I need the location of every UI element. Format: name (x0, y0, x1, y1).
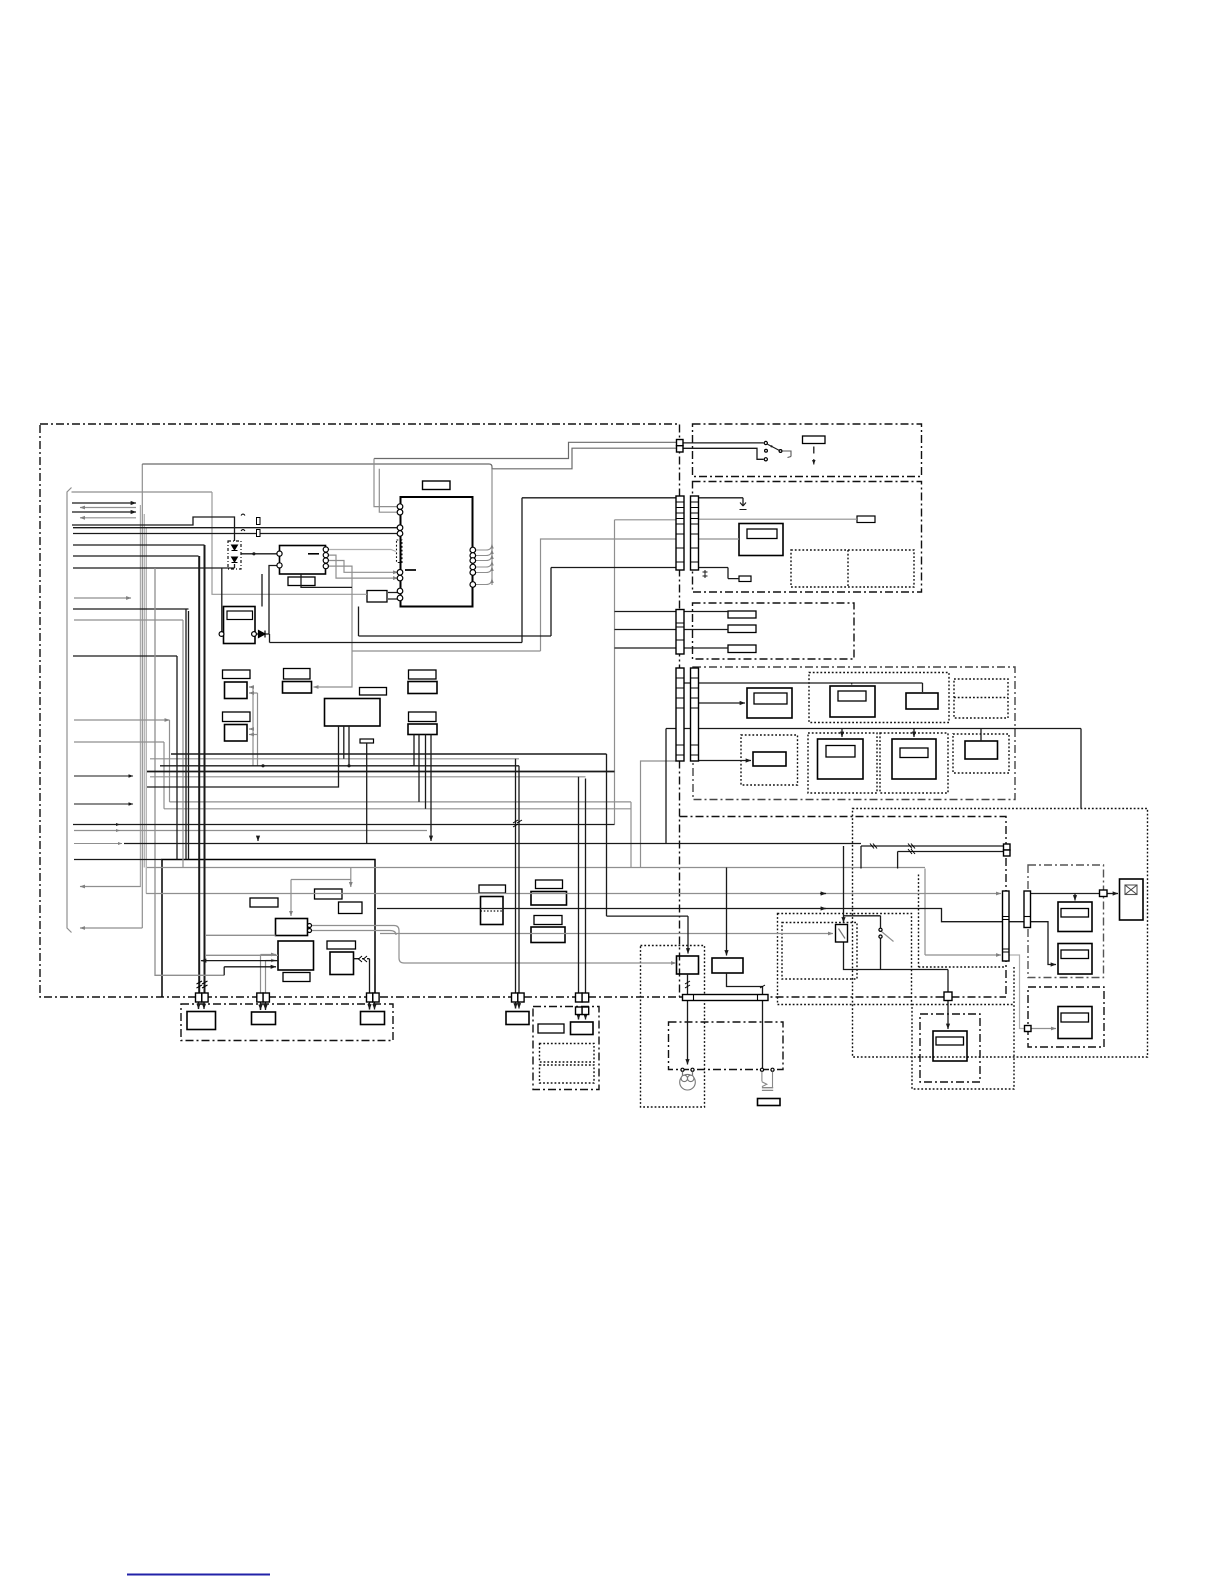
section box C (dash-dot) (693, 603, 855, 659)
power supply block (224, 607, 256, 644)
drop 620 (182, 620, 184, 868)
drop to U1 pin2 (379, 469, 398, 512)
drop 186 (185, 609, 187, 860)
riser 651 to strip (541, 539, 677, 651)
switch2 blade (882, 932, 894, 942)
divider of dotted cell box in B (847, 550, 849, 587)
section box I (dash-dot) (920, 1014, 980, 1082)
E double wire 2 (898, 852, 1004, 869)
diode block bottom stub (234, 564, 236, 568)
connector to I block (947, 1001, 949, 1030)
motor housing box (1120, 879, 1144, 920)
wire arrow-left b (80, 517, 136, 519)
mid block p2 (531, 892, 567, 906)
D row2 block d (965, 741, 998, 759)
O block 1 (538, 1024, 564, 1033)
drop 742 to 808.8 (163, 742, 165, 809)
dotted box E1 (778, 914, 912, 1005)
buzzer plate (762, 1088, 773, 1091)
switch A wire 2 (683, 448, 764, 459)
wire gray 720 (74, 719, 170, 721)
box C label 3 (728, 645, 756, 653)
stub into column L2 (249, 734, 258, 736)
U2 dash mark (308, 553, 319, 555)
label A pointer (813, 447, 815, 454)
top step bus G2 (374, 442, 677, 458)
dotted segment right of J (1013, 967, 1015, 1005)
PS pin circles (219, 632, 224, 637)
E arrows on buses (820, 893, 826, 895)
A' to bar (687, 974, 689, 995)
drop R2-3 (425, 735, 427, 809)
N block (506, 1012, 529, 1025)
U1 right pins (470, 547, 476, 553)
switch A blade junction (770, 445, 772, 447)
dotted box D row2 d (953, 734, 1009, 773)
pair drop 515.5 (515, 759, 517, 993)
drop 155 gray (155, 568, 224, 975)
connector CN-motor (1100, 890, 1108, 897)
connector P6 (944, 992, 952, 1001)
E gray drop 925 (924, 869, 926, 956)
D drop row2d (980, 729, 982, 742)
cluster IC curve 2 (312, 931, 397, 936)
junction dots on bus 765.8 (261, 764, 264, 767)
D block 1 label (754, 693, 787, 704)
U2 right pins (323, 547, 328, 552)
dotted box D right column (954, 679, 1008, 718)
D block 2 (830, 686, 875, 717)
M block 3 (361, 1012, 385, 1025)
section box D (dash-dot) (693, 667, 1015, 800)
switch A wire 1 (683, 442, 764, 444)
drop pair to cluster blocks 1 (249, 687, 253, 766)
relay blade (839, 929, 846, 939)
gray bus 933.5 to relay (380, 933, 833, 935)
drop 177 (176, 656, 178, 860)
U1 right pin curve 5 (475, 567, 492, 573)
block center-left (283, 682, 312, 694)
riser pair into cluster big block 1 (261, 955, 277, 994)
bus 754 drop to A' (607, 754, 689, 954)
bottom section box O (dash-dot) (533, 1007, 599, 1090)
cluster label a (250, 898, 278, 907)
gray bus 776.8 (150, 776, 586, 778)
dotted box D row1 (809, 673, 949, 723)
buzzer element (762, 1072, 773, 1088)
gray bus 893.5 (146, 893, 1001, 895)
power supply block label (227, 611, 253, 620)
drop pair to cluster blocks stub2 (249, 728, 253, 730)
block A' (in K) (677, 956, 699, 974)
PS diode link (257, 566, 279, 635)
cluster right block (330, 952, 354, 975)
O block 2 (571, 1022, 594, 1035)
pair drop 519 (518, 766, 520, 993)
block column R1 (408, 682, 437, 694)
cluster top link (291, 879, 351, 881)
riser pair into cluster big block 2 (266, 961, 277, 994)
gray bus 808.8 (164, 808, 631, 810)
wire return arrow-left 928 (80, 927, 142, 929)
lamp terminal stubs (683, 1072, 693, 1077)
wire gray loop down to regulator (212, 492, 367, 594)
switch A blade (768, 444, 780, 450)
dotted divider in mid block p1 (481, 910, 504, 912)
D block 3 (906, 693, 938, 709)
switch A throw wire (782, 451, 791, 458)
B wire 567.5 down to tiny block (699, 568, 740, 579)
wire 859.5 into cluster top (74, 859, 162, 861)
connector CN-E (1004, 844, 1011, 850)
bus 765.8 (160, 765, 519, 767)
mid block p3 (531, 927, 565, 943)
top step bus G1 (142, 448, 676, 469)
wire 568 (73, 567, 235, 569)
box B main block (739, 524, 783, 556)
drop R2-1 hook (410, 735, 414, 766)
cluster IC out gray to A' (399, 931, 676, 964)
label box column L1 (223, 670, 251, 679)
D drop row2c (913, 729, 915, 738)
IC U2 (coupler) (280, 546, 326, 575)
relay out to connector I (844, 942, 949, 992)
dotted box D row2 a (741, 735, 798, 785)
E gray to H connector (1009, 955, 1025, 1029)
buzzer block (758, 1099, 781, 1106)
motor crossed square (1125, 885, 1137, 895)
M feeds pair2 (261, 1001, 266, 1011)
I block label (936, 1037, 964, 1045)
connector strip S2 (691, 496, 699, 570)
drop R2-2 (418, 735, 420, 802)
wire gray fan 1 (72, 491, 213, 493)
label box above U1 (423, 481, 451, 490)
relay feed drop (843, 846, 845, 923)
dotted box J (912, 1005, 1014, 1090)
U1 left pins (397, 504, 403, 510)
D block 1 (747, 688, 792, 718)
U1 right loop vertical (491, 469, 493, 585)
cluster enclosure (3-sided) (162, 860, 375, 998)
PS diode (259, 631, 266, 638)
footer link underline (127, 1574, 270, 1576)
dotted box D row2 c (880, 733, 948, 793)
drop pair A1 (204, 545, 206, 993)
M feeds pair3 (370, 1001, 375, 1010)
diode block diode 2 (232, 557, 238, 562)
connector strip S1 (676, 496, 684, 570)
regulator box left of U1 (367, 591, 387, 603)
diode block diode 1 (232, 545, 238, 550)
gray bus 801.9 (170, 801, 632, 803)
drop toward F (1080, 729, 1082, 809)
motor crossed square X (1125, 885, 1137, 895)
connector strip S5 (691, 668, 699, 761)
D row2 block a (753, 752, 786, 766)
block column R2 (408, 724, 437, 735)
drop to PS pin (221, 568, 223, 632)
wire return arrow-left 886.5 (80, 886, 141, 888)
divider D right column (954, 697, 1008, 699)
connector pair P5 (576, 993, 583, 1002)
mid label p1 (479, 885, 506, 893)
label box column R1 (409, 670, 437, 679)
U2 pin1 link (241, 553, 278, 555)
cluster big block (278, 941, 314, 970)
dotted box K (lamp section) (641, 946, 705, 1108)
connector pair P2 (257, 993, 263, 1002)
I block (933, 1031, 967, 1061)
box B tiny block (739, 576, 751, 582)
drop R2-4 (430, 735, 432, 842)
bus 843.5 (124, 843, 861, 845)
wire gray to bus 598 (74, 597, 131, 599)
connector strip S4 (676, 668, 684, 761)
wire arrow-left a (80, 507, 136, 509)
diode block outline (dash-dot) (228, 541, 241, 569)
harness rail 2 (139, 505, 141, 887)
drop 720 to 801.9 (169, 720, 171, 802)
D row2 block b (818, 739, 864, 779)
label drop 366.7 (366, 743, 368, 844)
O feeds (579, 1015, 586, 1020)
B long wire to small label (699, 518, 858, 520)
harness rail 3 (143, 514, 145, 868)
bus 771.5 (147, 771, 615, 773)
H block label (1061, 1013, 1089, 1022)
N feeds (516, 1001, 520, 1009)
lamp terminals (681, 1068, 684, 1071)
U2 left pins (277, 551, 282, 556)
chevrons on cluster stub (359, 956, 368, 962)
cluster box c (339, 902, 363, 914)
B inline fuse mark (703, 570, 708, 578)
wire gray 843.6 arrow (74, 843, 122, 845)
box C label 1 (728, 611, 756, 618)
wire 545 (73, 544, 205, 546)
G block 2 (1058, 944, 1092, 975)
dotted cell box in B (791, 550, 914, 587)
cluster IC curve 1 (312, 926, 400, 931)
drop 631 to 867.5 (630, 802, 632, 868)
relay SW1 box (836, 925, 848, 943)
drop pair B1 (198, 556, 200, 993)
bottom section box M (dash-dot) (181, 1004, 393, 1041)
E double wire 1 (861, 846, 1004, 869)
label box center-left (284, 669, 311, 680)
G block 1 (1058, 902, 1092, 932)
gray wire 519.8 (615, 519, 677, 521)
long vertical 614.5 (614, 520, 616, 825)
cluster right label (327, 941, 356, 949)
U1 right pin curve 2 (475, 550, 492, 556)
mid label p2 (536, 880, 563, 889)
big dotted enclosure F (853, 809, 1148, 1058)
D top feed row1 (684, 683, 923, 692)
cluster right edge lower (374, 975, 376, 994)
wire 556 (73, 555, 199, 557)
gray return from strip S4 (641, 761, 677, 868)
section box B (dash-dot) (693, 482, 922, 593)
U1 right pin curve 1 (475, 544, 492, 550)
D feed arrow row2a (696, 760, 751, 762)
lamp inner circles (681, 1075, 687, 1081)
small label under center block (360, 739, 374, 743)
drop pair to cluster blocks 2 (249, 693, 258, 766)
ferrite marks on E wires (870, 844, 915, 855)
label right of center block (360, 688, 387, 696)
D row2 block b label (826, 746, 855, 758)
B wire 497.8 with diode drop (699, 498, 744, 506)
wire to U1 pin3 (73, 527, 398, 529)
connector CN top right (677, 440, 684, 446)
U1 right pin curve 6 (475, 579, 492, 585)
G block 1 label (1061, 909, 1089, 918)
M block 2 (252, 1012, 276, 1025)
dotted box E2 (782, 923, 857, 980)
big center block (325, 699, 381, 727)
U1 right pin curve 4 (475, 561, 492, 567)
wire arrow 776 (74, 775, 133, 777)
stub arrow at 258 (257, 836, 259, 841)
box C feed 3 (615, 647, 729, 649)
harness duct right rail (141, 464, 143, 928)
gray bus 867.5 (147, 867, 925, 869)
strip wire 539 into B block (699, 538, 740, 540)
long connector bar (683, 995, 769, 1001)
connector pair P3 (367, 993, 373, 1002)
D row2 block c (892, 739, 936, 779)
cluster IC pins (308, 924, 312, 928)
bus 908.5 stepping to G2 (377, 909, 1056, 965)
connector CN-H (1025, 1026, 1032, 1032)
drop 188.5 (188, 611, 190, 860)
bus 824.5 (73, 824, 615, 826)
harness duct left rail (67, 488, 72, 933)
bus 636 riser to strip (359, 568, 677, 637)
label box column R2 (409, 712, 437, 722)
drop to U1 pin1 (374, 459, 398, 507)
connector strip S7 (1024, 891, 1031, 928)
connector strip S3 (box C) (676, 610, 684, 655)
cluster label under big block (283, 973, 310, 982)
B diode bar (740, 503, 747, 510)
dotted box D row2 b (808, 733, 877, 793)
connector pair P4 (512, 993, 518, 1002)
regulator links to U1 (388, 593, 398, 600)
IC U1 main block (401, 497, 473, 607)
bus 787 link (147, 726, 339, 787)
wire to U1 pin4 (73, 533, 398, 535)
switch A contacts (764, 441, 767, 444)
drop 666 to bus (665, 729, 667, 844)
block B' (712, 958, 743, 973)
box A label (803, 436, 826, 444)
cluster label b (315, 889, 343, 899)
label box under U2 (288, 577, 315, 586)
connector pair P5 row2 (576, 1007, 583, 1015)
gray bus 651 (352, 650, 541, 652)
U1 right pin curve 3 (475, 555, 492, 561)
box B small label right (857, 516, 875, 523)
switch2 branch (844, 916, 881, 970)
power/jack section outline E (dash-dot) (680, 817, 1007, 998)
cluster left feeds (205, 935, 278, 955)
bar to lamp (687, 1001, 689, 1065)
M feeds pair1 (199, 1001, 205, 1010)
bottom dash-dot rail extension (680, 996, 1007, 998)
pair drop 585.5 (585, 779, 587, 994)
cluster riser to IC top (290, 880, 292, 917)
D drop row2b (841, 729, 843, 738)
box C label 2 (728, 625, 756, 633)
dotted pin strip on IC1 left edge (397, 540, 403, 563)
mid block p1 with dotted divider (481, 897, 504, 925)
inline beads left (257, 518, 261, 525)
E gray 955 to strip (925, 954, 1001, 956)
wire gray 830.5 (74, 830, 427, 832)
D long feed 728.5 (666, 728, 1081, 730)
bar to buzzer (762, 1001, 764, 1069)
wire 656 (73, 655, 177, 657)
cluster IC with pins (276, 919, 308, 936)
U2 to U1 gray link 3 (328, 561, 398, 573)
link into cluster big block (224, 967, 276, 976)
center block bottom links (344, 726, 349, 766)
section box H (dash-dot) (1028, 987, 1104, 1047)
section box G (dash-dot gray) (1028, 865, 1104, 978)
main board outline (dash-dot) (40, 424, 680, 997)
cluster block out arrow-left (201, 960, 278, 962)
inline marks on pair drops (197, 820, 766, 988)
D row2 block c label (900, 748, 928, 758)
U2 link down to cluster label (314, 566, 353, 687)
box B main block label (747, 529, 777, 539)
tilde marks (241, 514, 245, 531)
lamp body (680, 1074, 696, 1090)
wire gray 742 (74, 741, 164, 743)
tuner section box A (dash-dot) (693, 424, 922, 477)
block column L2 (225, 725, 248, 742)
U2 to U1 gray link 2 (328, 555, 398, 578)
wire fan 503 (72, 502, 136, 504)
buzzer terminals (760, 1068, 763, 1071)
dotted cell 1 in box O (540, 1044, 595, 1063)
B' riser (726, 868, 728, 956)
wire arrow 804 (74, 803, 133, 805)
wire 525 step to diode block (72, 517, 235, 541)
block column L1 (225, 682, 248, 699)
connector pair P1 (196, 993, 202, 1002)
G drop into block1 (1074, 894, 1076, 901)
wire fan 512 (72, 511, 136, 513)
drop into cluster label b (350, 868, 352, 888)
M block 1 (187, 1012, 216, 1030)
dotted cell 2 in box O (540, 1065, 595, 1083)
G block 2 label (1061, 950, 1089, 959)
dotted notch of E1 (919, 875, 1006, 968)
U1 inner dash mark (405, 569, 416, 571)
harness rail 4 (145, 527, 147, 894)
box C feed 2 (615, 629, 729, 631)
box C feed 1 (615, 611, 729, 613)
pair drop 578.5 (578, 777, 580, 993)
section box L (dash-dot) (669, 1022, 784, 1070)
mid label p3 (534, 916, 562, 925)
connector strip S6 (1003, 891, 1010, 961)
gray 893.5 strip2 to motor connector (1031, 893, 1100, 895)
